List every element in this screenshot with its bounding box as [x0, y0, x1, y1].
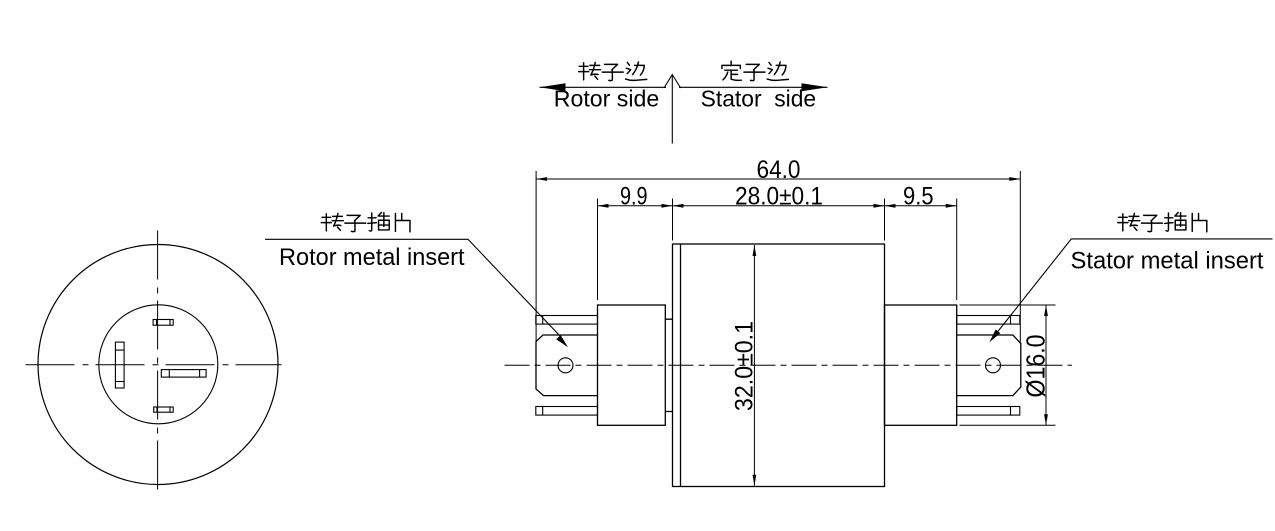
svg-text:Ø16.0: Ø16.0	[1023, 335, 1051, 398]
svg-text:Rotor side: Rotor side	[554, 86, 660, 112]
svg-text:Stator side: Stator side	[701, 86, 817, 112]
svg-text:32.0±0.1: 32.0±0.1	[730, 321, 758, 411]
svg-text:64.0: 64.0	[757, 156, 801, 184]
svg-text:Stator metal insert: Stator metal insert	[1071, 248, 1264, 275]
svg-text:9.9: 9.9	[620, 183, 648, 211]
svg-text:9.5: 9.5	[903, 183, 934, 211]
svg-text:Rotor metal insert: Rotor metal insert	[279, 244, 465, 271]
svg-text:28.0±0.1: 28.0±0.1	[735, 183, 823, 211]
